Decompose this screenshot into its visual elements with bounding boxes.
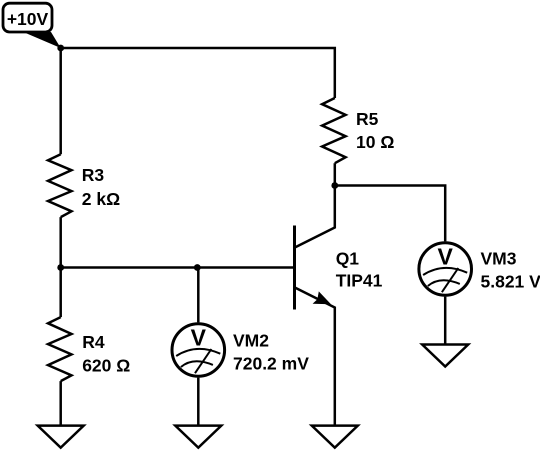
svg-text:R4: R4 <box>82 332 105 352</box>
svg-text:VM2: VM2 <box>233 330 269 350</box>
svg-text:R5: R5 <box>356 109 379 129</box>
svg-text:V: V <box>191 325 207 351</box>
svg-text:Q1: Q1 <box>336 248 360 268</box>
svg-text:R3: R3 <box>82 165 105 185</box>
svg-text:620 Ω: 620 Ω <box>82 355 130 375</box>
svg-text:TIP41: TIP41 <box>336 270 383 290</box>
svg-text:V: V <box>438 244 454 270</box>
svg-text:+10V: +10V <box>7 9 49 29</box>
svg-text:720.2 mV: 720.2 mV <box>233 353 309 373</box>
svg-text:10 Ω: 10 Ω <box>356 132 394 152</box>
svg-text:VM3: VM3 <box>481 249 517 269</box>
svg-text:2 kΩ: 2 kΩ <box>82 189 120 209</box>
svg-text:5.821 V: 5.821 V <box>481 271 540 291</box>
